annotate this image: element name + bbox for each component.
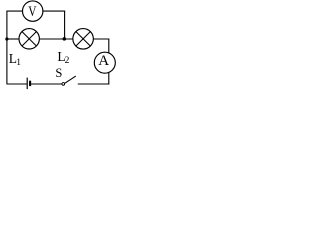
wire bottom-center horizontal (31, 83, 62, 85)
wire right vertical lower (108, 72, 110, 85)
node junction middle (63, 37, 67, 41)
svg-text:1: 1 (16, 58, 21, 68)
battery B1 long plate (26, 78, 28, 90)
node junction left (5, 37, 8, 40)
voltmeter U1 V (23, 1, 43, 21)
wire top-right horizontal (43, 10, 65, 12)
wire right vertical upper (108, 39, 110, 55)
svg-text:S: S (55, 66, 62, 80)
wire bottom-left horizontal (7, 83, 27, 85)
wire voltmeter branch vertical (64, 11, 66, 39)
svg-text:V: V (28, 4, 36, 20)
svg-text:A: A (98, 53, 109, 69)
wire top-left horizontal (7, 10, 23, 12)
wire middle-center horizontal (39, 38, 73, 40)
wire left vertical (6, 11, 8, 85)
switch S pivot (62, 83, 65, 86)
svg-text:2: 2 (65, 56, 70, 66)
ammeter U2 A (94, 52, 115, 73)
switch S blade (65, 76, 76, 83)
lamp L2 (73, 29, 94, 50)
lamp L1 (19, 29, 39, 49)
wire bottom-right horizontal (78, 83, 110, 85)
wire middle-right horizontal (93, 38, 109, 40)
wire middle-left horizontal (7, 38, 19, 40)
battery B1 short plate (29, 81, 31, 86)
